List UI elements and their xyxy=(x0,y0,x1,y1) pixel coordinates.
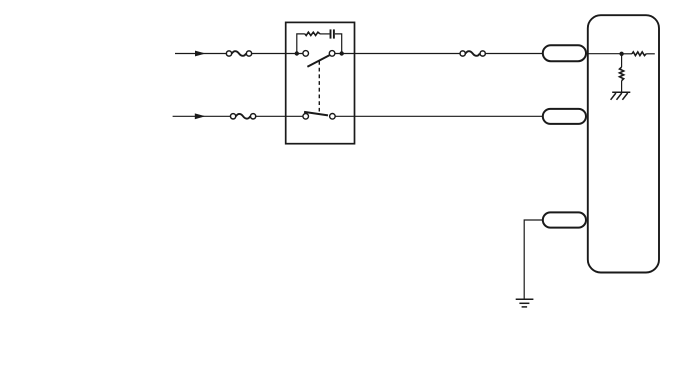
node A: internal junction xyxy=(619,52,623,56)
relay box K1 xyxy=(286,22,355,143)
ground: chassis ground (hatched) xyxy=(611,92,631,100)
wire: connector J3 to top pin xyxy=(486,53,543,55)
wire: node A to resistor R2 xyxy=(622,53,632,55)
wire: bottom input lead xyxy=(173,115,231,117)
pin 1: top terminal lug xyxy=(543,45,586,61)
wire: switch 1 right terminal to box edge xyxy=(335,53,354,55)
arrow: top flow direction xyxy=(195,51,206,57)
pin 2: middle terminal lug xyxy=(543,109,586,124)
module U1: control unit outline xyxy=(588,15,659,272)
wire: mechanical link (dashed) xyxy=(318,61,320,112)
switch S2: lower relay contact (closed) xyxy=(286,112,355,119)
capacitor C1: snubber capacitor xyxy=(331,29,334,38)
wire: snubber left riser xyxy=(297,34,305,54)
ground: earth ground xyxy=(516,299,534,307)
wire: box edge to switch 1 left terminal xyxy=(286,53,303,55)
connector J1: inline connector with wavy wire (top left) xyxy=(226,51,251,56)
arrow: bottom flow direction xyxy=(195,113,206,119)
resistor R2: internal series resistor xyxy=(632,52,646,56)
wire: top pin into module to node A xyxy=(586,53,622,55)
wire: bottom pin to earth ground xyxy=(524,220,543,299)
node: left snubber junction xyxy=(295,51,299,55)
switch S1: upper relay contact (open) xyxy=(303,51,335,67)
pin 3: bottom terminal lug xyxy=(543,212,586,227)
wire: snubber right riser xyxy=(335,34,342,54)
wire: middle run from relay box to middle pin xyxy=(355,115,543,117)
wire: resistor to capacitor xyxy=(320,33,330,35)
node: right snubber junction xyxy=(340,51,344,55)
resistor R3: internal pull-down resistor xyxy=(620,67,624,81)
wire: top input lead xyxy=(175,53,226,55)
wire: resistor R3 to chassis ground xyxy=(621,81,623,92)
wire: node A down to resistor R3 xyxy=(621,54,623,67)
connector J3: inline connector with wavy wire (top right) xyxy=(460,51,485,56)
wire: bottom lead to relay box xyxy=(256,115,286,117)
connector J2: inline connector with wavy wire (bottom left) xyxy=(230,114,255,119)
resistor R1: snubber resistor xyxy=(305,32,320,35)
wire: top run from relay box to connector J3 xyxy=(355,53,460,55)
wire: resistor R2 stub xyxy=(646,53,655,55)
wire: top lead to relay box xyxy=(252,53,286,55)
